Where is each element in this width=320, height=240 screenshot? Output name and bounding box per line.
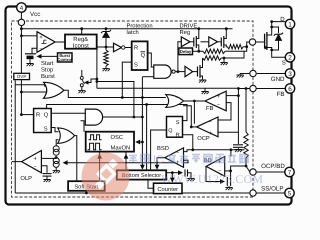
svg-text:6: 6 (288, 86, 292, 93)
svg-text:S: S (134, 62, 138, 69)
svg-text:+: + (176, 159, 180, 166)
svg-text:Q: Q (168, 128, 172, 134)
svg-text:−: − (39, 46, 42, 52)
svg-text:Protection: Protection (127, 23, 153, 30)
svg-text:BSD: BSD (157, 145, 169, 152)
svg-text:Q: Q (141, 52, 146, 59)
svg-text:Stop: Stop (41, 67, 54, 74)
svg-text:−: − (34, 164, 37, 170)
svg-text:R: R (176, 132, 180, 138)
svg-text:Counter: Counter (157, 186, 178, 193)
svg-text:OCP/BD: OCP/BD (261, 163, 285, 170)
svg-text:5: 5 (288, 190, 292, 197)
svg-text:OCP: OCP (197, 135, 210, 142)
svg-text:+: + (217, 93, 221, 100)
svg-text:MaxON: MaxON (111, 144, 131, 151)
svg-text:−: − (217, 102, 220, 108)
svg-text:GND: GND (271, 76, 285, 83)
svg-text:S: S (176, 120, 180, 126)
svg-text:1: 1 (288, 21, 292, 28)
svg-text:Q: Q (44, 111, 49, 118)
svg-text:Reg: Reg (180, 30, 191, 36)
svg-text:3: 3 (288, 71, 292, 78)
svg-text:R: R (36, 112, 40, 118)
svg-text:Burst: Burst (41, 73, 55, 80)
svg-text:IC: IC (153, 154, 164, 166)
svg-text:OVP: OVP (17, 74, 27, 79)
svg-text:Iconst: Iconst (73, 43, 89, 50)
svg-text:FB: FB (206, 106, 214, 112)
svg-text:OSC: OSC (111, 134, 124, 141)
svg-text:FB: FB (277, 91, 285, 98)
svg-text:OLP: OLP (20, 175, 32, 182)
svg-text:WWW.U1273.COM: WWW.U1273.COM (161, 172, 264, 186)
svg-text:Vcc: Vcc (30, 11, 40, 18)
svg-text:R: R (134, 46, 138, 52)
svg-text:7: 7 (288, 169, 292, 176)
svg-text:D: D (280, 16, 285, 23)
svg-text:Delay: Delay (180, 49, 192, 54)
svg-text:Start: Start (41, 60, 54, 67)
svg-text:+: + (39, 35, 43, 41)
svg-text:−: − (209, 120, 212, 126)
svg-text:Reg&: Reg& (73, 36, 88, 43)
svg-text:latch: latch (127, 29, 139, 36)
svg-text:S: S (282, 60, 286, 67)
svg-text:2: 2 (288, 55, 292, 62)
svg-text:−: − (176, 151, 179, 157)
svg-text:DRIVE: DRIVE (180, 23, 198, 29)
svg-text:+: + (33, 156, 37, 163)
svg-text:Control: Control (57, 57, 72, 62)
svg-text:SS/OLP: SS/OLP (261, 186, 283, 193)
svg-text:S: S (44, 125, 48, 132)
svg-text:4: 4 (20, 5, 24, 12)
